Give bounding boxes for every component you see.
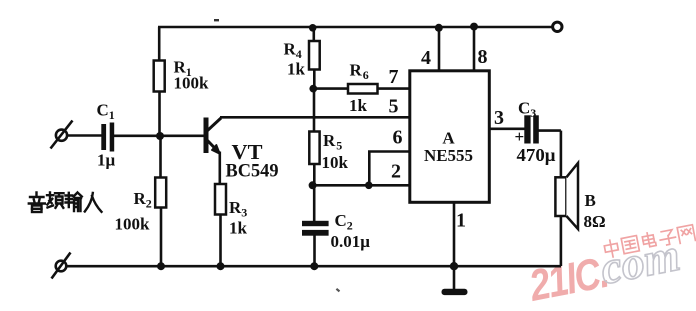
svg-text:R6: R6 [350,61,369,83]
svg-text:R5: R5 [323,131,342,153]
svg-text:C3: C3 [518,99,536,121]
svg-text:7: 7 [389,66,399,88]
svg-text:B: B [585,191,596,210]
svg-text:5: 5 [389,96,399,118]
svg-text:1μ: 1μ [97,151,116,170]
svg-text:100k: 100k [115,215,151,234]
svg-text:8Ω: 8Ω [584,212,606,231]
svg-text:470μ: 470μ [517,145,556,165]
svg-text:10k: 10k [322,153,349,172]
svg-text:1k: 1k [229,219,248,238]
svg-text:+: + [515,127,525,146]
svg-text:C1: C1 [97,101,115,123]
svg-text:6: 6 [393,127,403,149]
svg-text:A: A [442,129,455,148]
svg-text:R2: R2 [134,189,152,211]
svg-text:R3: R3 [229,198,247,220]
svg-text:1k: 1k [287,60,306,79]
svg-text:R4: R4 [284,40,302,62]
svg-text:NE555: NE555 [424,146,473,165]
svg-text:BC549: BC549 [226,161,279,182]
svg-text:8: 8 [478,46,488,68]
svg-text:1k: 1k [349,96,368,115]
svg-text:100k: 100k [174,74,210,93]
svg-text:3: 3 [494,107,504,129]
svg-text:0.01μ: 0.01μ [331,232,371,251]
svg-text:C2: C2 [335,211,353,233]
svg-text:4: 4 [421,47,431,69]
svg-text:1: 1 [456,210,466,232]
svg-text:2: 2 [391,161,401,183]
